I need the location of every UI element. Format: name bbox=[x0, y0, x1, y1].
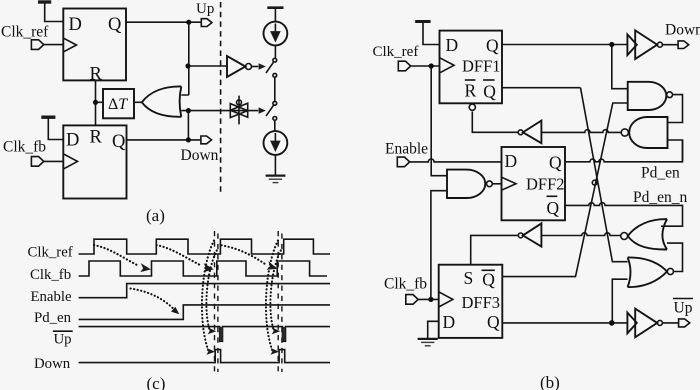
svg-text:Enable: Enable bbox=[385, 141, 428, 158]
svg-text:Q: Q bbox=[108, 15, 122, 35]
svg-text:(a): (a) bbox=[146, 206, 165, 225]
svg-text:Q: Q bbox=[487, 312, 500, 332]
svg-text:Up: Up bbox=[54, 332, 72, 348]
svg-text:S: S bbox=[464, 268, 474, 288]
svg-text:Q: Q bbox=[547, 198, 560, 218]
svg-text:DFF2: DFF2 bbox=[526, 175, 565, 194]
svg-text:Clk_ref: Clk_ref bbox=[373, 44, 419, 60]
svg-text:Q: Q bbox=[549, 153, 562, 173]
svg-text:Clk_fb: Clk_fb bbox=[384, 276, 427, 293]
svg-text:Down: Down bbox=[181, 147, 219, 164]
svg-text:DFF3: DFF3 bbox=[462, 293, 501, 312]
svg-text:R: R bbox=[90, 128, 103, 148]
svg-text:Down: Down bbox=[34, 356, 71, 372]
svg-text:D: D bbox=[69, 15, 82, 35]
svg-text:(c): (c) bbox=[147, 374, 166, 390]
svg-text:Down: Down bbox=[665, 22, 700, 39]
svg-text:Q: Q bbox=[486, 36, 499, 56]
svg-text:Pd_en: Pd_en bbox=[641, 165, 680, 182]
svg-text:D: D bbox=[443, 312, 456, 332]
svg-text:Pd_en_n: Pd_en_n bbox=[633, 189, 688, 206]
svg-text:Up: Up bbox=[674, 300, 693, 317]
svg-text:Clk_ref: Clk_ref bbox=[28, 245, 73, 261]
svg-text:ΔT: ΔT bbox=[108, 96, 128, 113]
svg-text:Clk_ref: Clk_ref bbox=[1, 24, 49, 41]
svg-text:D: D bbox=[505, 151, 518, 171]
svg-text:(b): (b) bbox=[540, 373, 560, 390]
svg-text:Enable: Enable bbox=[31, 289, 73, 305]
svg-text:Q: Q bbox=[112, 132, 126, 152]
svg-text:D: D bbox=[66, 131, 79, 151]
svg-text:Q: Q bbox=[482, 270, 495, 290]
svg-text:R: R bbox=[465, 81, 477, 101]
svg-text:D: D bbox=[446, 35, 459, 55]
svg-text:Clk_fb: Clk_fb bbox=[3, 139, 46, 156]
svg-text:Clk_fb: Clk_fb bbox=[30, 267, 71, 283]
svg-text:Q: Q bbox=[483, 82, 496, 102]
svg-text:DFF1: DFF1 bbox=[462, 57, 501, 76]
svg-text:Up: Up bbox=[196, 1, 214, 17]
svg-text:Pd_en: Pd_en bbox=[34, 310, 72, 326]
